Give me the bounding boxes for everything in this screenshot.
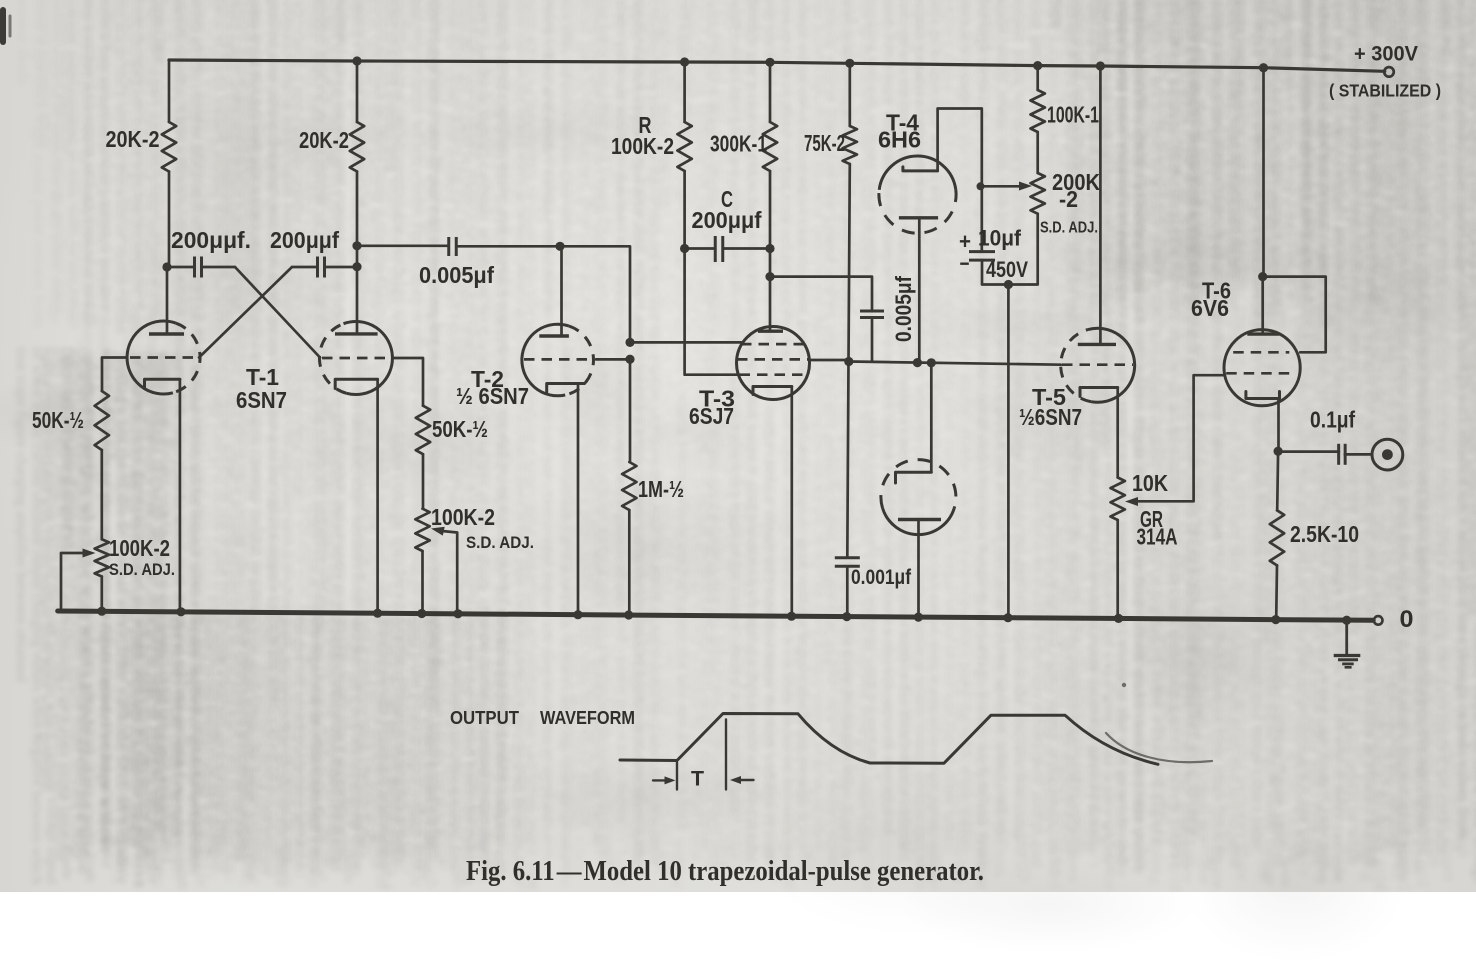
junction on B+ rail at 300K-1 (765, 58, 774, 67)
capacitor 200uuf (right) (292, 257, 357, 278)
wire: T-2 cathode to bus (577, 384, 580, 615)
junction dot T-4 upper plate lead (913, 358, 922, 367)
wiper of 10K to T-6 grid (1125, 375, 1224, 506)
T-1a cathode (145, 379, 180, 388)
junction dot T-1b cathode at bus (373, 609, 382, 618)
svg-text:450V: 450V (986, 257, 1028, 282)
svg-text:½6SN7: ½6SN7 (1019, 404, 1082, 430)
wire: cross-coupling diagonal from left cap to T-1b grid (235, 267, 320, 358)
T-5 cathode (1080, 388, 1118, 397)
T-1b cathode (335, 379, 377, 388)
caption Fig. 6.11 (466, 856, 984, 887)
resistor R 100K-2 (677, 62, 691, 247)
label T dimension (691, 768, 704, 791)
wire: T-5 plate lead (1099, 66, 1102, 344)
wire: T-2 grid line to T-3 g1 (630, 341, 741, 344)
wire: ground bus (58, 611, 1374, 620)
T-6 plate bar (1247, 332, 1279, 335)
svg-text:200μμf.: 200μμf. (171, 227, 251, 253)
wire: T-1a cathode to ground bus (179, 379, 182, 612)
label GR (1140, 506, 1163, 532)
label 6H6 (878, 127, 921, 153)
wire: T-3 plate lead (0, 0, 1, 1)
label 200uuf (C) (692, 207, 762, 233)
capacitor 0.1uf (1339, 444, 1346, 465)
label 0.001uf (851, 566, 912, 589)
T-3 plate bar (758, 330, 783, 333)
junction dot 1M at bus (624, 610, 633, 619)
label 100K-2 (R) (611, 133, 674, 159)
label R (639, 112, 652, 138)
label 75K-2 (804, 130, 845, 156)
label + of 10uf (959, 229, 971, 254)
capacitor 0.005uf (vertical) (860, 311, 884, 318)
label OUTPUT (450, 708, 519, 728)
label 20K-2 left (106, 126, 160, 152)
wire: T-4 lower plate to bus (917, 520, 920, 618)
svg-text:50K-½: 50K-½ (32, 407, 84, 433)
wire: T-1a grid lead (102, 358, 127, 392)
label 1M-1/2 (638, 476, 684, 502)
potentiometer 100K-2 S.D.ADJ (left) (95, 539, 109, 576)
svg-text:6H6: 6H6 (878, 127, 921, 153)
label T-5 (1032, 384, 1066, 410)
svg-text:( STABILIZED ): ( STABILIZED ) (1329, 81, 1441, 101)
label T-3 (699, 386, 735, 412)
dimension arrow right (730, 776, 754, 784)
dimension tick left of T (676, 763, 678, 790)
wire: 0.1uf to output jack (1345, 453, 1372, 456)
label T-4 (886, 110, 919, 136)
potentiometer 100K-2 S.D.ADJ (right) (415, 509, 429, 551)
junction dot 10uf line at bus (1003, 613, 1012, 622)
label 314A (1137, 524, 1178, 550)
svg-text:0.005μf: 0.005μf (419, 262, 494, 288)
junction dot 0.001uf at bus (842, 612, 851, 621)
svg-text:6SJ7: 6SJ7 (689, 403, 734, 429)
wire: left pot bottom to bus (100, 577, 103, 612)
label C (721, 186, 733, 212)
svg-text:75K-2: 75K-2 (804, 130, 845, 156)
svg-text:20K-2: 20K-2 (106, 126, 160, 152)
potentiometer 10K GR 314A (1111, 478, 1125, 521)
label 6V6 (1191, 295, 1229, 321)
label S.D. ADJ. right pot (466, 534, 534, 552)
wire: T-5 cathode to 10K (1116, 388, 1119, 478)
T-6 cathode (1246, 392, 1280, 399)
junction on B+ rail at 75K-2 (845, 59, 854, 68)
label 200uuf left (171, 227, 251, 253)
tube T-4 lower diode envelope (881, 460, 956, 535)
junction dot 0.005uf tap on T-3 plate line (765, 272, 774, 281)
junction dot plate T-1a / C coupling (162, 262, 171, 271)
label 2.5K-10 (1290, 521, 1359, 547)
T-4 lower cathode (896, 472, 932, 483)
junction on B+ rail at 100K-1 (1033, 61, 1042, 70)
output jack (1372, 439, 1403, 470)
T-3 grid 1 (dashed) (741, 343, 805, 346)
wire: T-3 cathode to bus (790, 387, 793, 617)
svg-text:0.001μf: 0.001μf (851, 566, 912, 589)
tube T-6 envelope (1224, 330, 1300, 406)
svg-text:200μμf: 200μμf (692, 207, 762, 233)
svg-text:100K-2: 100K-2 (109, 535, 170, 561)
T-5 grid (dashed) (1062, 363, 1133, 366)
tube T-1 section B envelope (319, 322, 392, 395)
resistor 75K-2 (843, 63, 857, 361)
T-3 grid 2 screen (dashed) (737, 358, 809, 361)
label 300K-1 (710, 131, 767, 157)
junction dot ground stem at bus (1342, 616, 1351, 625)
label 100K-2 right pot (431, 504, 495, 530)
junction dot T-3 cathode at bus (787, 612, 796, 621)
svg-text:100K-2: 100K-2 (431, 504, 495, 530)
terminal: 0 volt output (1374, 616, 1383, 625)
junction dot R / C cap (680, 244, 689, 253)
tube T-4 upper diode envelope (879, 156, 956, 233)
label 100K-1 (1047, 102, 1099, 128)
resistor 50K-1/2 (left) (95, 391, 109, 450)
label 10K (1132, 470, 1168, 496)
label - of 10uf (960, 251, 970, 276)
label 50K-1/2 right (432, 416, 488, 442)
arrow into 200K pot (1019, 182, 1032, 191)
wire: T-1b cathode to ground bus (376, 379, 379, 613)
svg-text:S.D. ADJ.: S.D. ADJ. (466, 534, 534, 552)
label 450V (986, 257, 1028, 282)
T-6 control grid (dashed) (1226, 372, 1289, 375)
T-2 grid (dashed) (524, 358, 594, 361)
svg-text:+ 300V: + 300V (1354, 43, 1418, 66)
label (STABILIZED) (1329, 81, 1441, 101)
label T-6 (1202, 278, 1231, 304)
junction dot 2.5K at bus (1271, 615, 1280, 624)
junction dot T-3 g1 tap (625, 338, 634, 347)
label -2 (1059, 186, 1078, 212)
wire: R line down to T-3 grid (685, 247, 738, 375)
T-1a grid (dashed) (130, 356, 196, 359)
wire: T-6 cathode to output node (1277, 399, 1280, 452)
svg-text:6SN7: 6SN7 (236, 387, 287, 413)
svg-text:0: 0 (1400, 606, 1414, 633)
T-2 cathode (547, 384, 585, 393)
label 50K-1/2 left (32, 407, 84, 433)
capacitor 10uf 450V (969, 252, 995, 261)
wire: tap to vertical 0.005uf (770, 277, 872, 312)
svg-text:-2: -2 (1059, 186, 1078, 212)
tube T-1 section A envelope (127, 321, 200, 394)
svg-text:50K-½: 50K-½ (432, 416, 488, 442)
wire: T-2 plate lead (560, 246, 563, 336)
T-3 grid 3 (dashed) (740, 373, 807, 376)
resistor 300K-1 (763, 62, 777, 331)
svg-text:0.1μf: 0.1μf (1310, 407, 1355, 433)
wiper of right pot (431, 527, 457, 614)
label 200K (1052, 169, 1100, 195)
svg-text:OUTPUT: OUTPUT (450, 708, 519, 728)
T-5 plate bar (1078, 343, 1116, 346)
T-6 screen grid (dashed) (1233, 351, 1289, 354)
svg-text:Fig. 6.11 — Model 10 trapezoid: Fig. 6.11 — Model 10 trapezoidal-pulse g… (466, 856, 984, 887)
wire: T-1a plate lead (166, 267, 169, 334)
junction dot below 10uf (1004, 280, 1013, 289)
wire: T-4 upper cathode loop to 10uf/200K wiper (938, 109, 982, 252)
junction dot T-2 cathode at bus (573, 610, 582, 619)
wire: 50K to pot (right) (422, 454, 425, 509)
label 0 terminal (1400, 606, 1414, 633)
resistor 20K-2 (left) (162, 60, 176, 267)
svg-text:300K-1: 300K-1 (710, 131, 767, 157)
T-3 cathode (753, 387, 792, 395)
label T-1 (246, 364, 279, 390)
label 200uuf right (270, 227, 339, 253)
label S.D.ADJ. 200K (1040, 220, 1098, 237)
T-1b grid (dashed) (322, 357, 392, 360)
dimension tick right of T (725, 720, 727, 790)
wire: T-6 plate branch (1262, 68, 1265, 277)
ground symbol (1334, 620, 1361, 667)
wire: 10uf bottom rail (982, 214, 1038, 285)
wire: T-4 lower cathode to junction (930, 363, 933, 472)
wire: 0.005uf to T-2 grid line (457, 246, 631, 342)
wire: B+ supply rail (169, 60, 1385, 71)
wire: wiper line (982, 185, 1026, 188)
junction dot output node (1274, 447, 1283, 456)
svg-text:10μf: 10μf (978, 226, 1022, 251)
output waveform trace (620, 714, 1158, 765)
wire: T-3 screen to 75K line (809, 359, 849, 362)
resistor 50K-1/2 (right) (416, 406, 430, 455)
wire: T-6 screen loop (1263, 277, 1326, 353)
svg-text:200μμf: 200μμf (270, 227, 339, 253)
svg-text:100K-2: 100K-2 (611, 133, 674, 159)
junction dot 75K / screen / long wire (844, 357, 853, 366)
T-4 lower plate bar (898, 518, 941, 521)
wire: T-4 upper plate to junction (918, 218, 921, 363)
junction dot left pot at bus (97, 607, 106, 616)
wire: T-2 grid lead (596, 358, 630, 361)
wire: T-1b grid lead (393, 358, 424, 406)
wire: T-6 plate lead (1261, 277, 1264, 335)
resistor 100K-1 (1031, 66, 1045, 173)
wire: 50K to pot (left) (100, 450, 103, 539)
wire: T-1b plate to 0.005uf (357, 244, 448, 247)
T-4 upper plate bar (899, 216, 938, 219)
resistor 20K-2 (right) (350, 61, 364, 334)
label 0.005uf (419, 262, 494, 288)
junction dot right pot wiper at bus (453, 609, 462, 618)
svg-text:100K-1: 100K-1 (1047, 102, 1099, 128)
junction on B+ rail at 20K-2 #2 (352, 56, 361, 65)
capacitor 0.001uf (835, 558, 860, 567)
junction dot T-2 grid (625, 355, 634, 364)
label 100K-2 left pot (109, 535, 170, 561)
junction dot 200K wiper tee (977, 182, 985, 190)
wire: cross-coupling diagonal from right cap to T-1a grid (199, 267, 292, 358)
tube T-3 envelope (737, 327, 810, 400)
junction dot C / 300K / T-3 plate (765, 244, 774, 253)
wire: 75K line to 0.001uf (847, 362, 848, 558)
svg-text:314A: 314A (1137, 524, 1178, 550)
svg-text:0.005μf: 0.005μf (891, 275, 916, 342)
wire: 10uf junction to bus (1007, 285, 1010, 618)
junction dot T-4 lower cathode lead (927, 358, 936, 367)
svg-text:T: T (691, 768, 704, 791)
svg-text:2.5K-10: 2.5K-10 (1290, 521, 1359, 547)
T-1b plate bar (335, 332, 378, 335)
svg-text:6V6: 6V6 (1191, 295, 1229, 321)
resistor 1M-1/2 (622, 462, 636, 510)
label 0.005uf vertical (891, 275, 916, 342)
svg-text:½ 6SN7: ½ 6SN7 (456, 383, 529, 409)
tube T-5 envelope (1061, 328, 1135, 402)
svg-text:S.D. ADJ.: S.D. ADJ. (1040, 220, 1098, 237)
label 1/2 6SN7 (456, 383, 529, 409)
svg-text:20K-2: 20K-2 (299, 127, 349, 153)
svg-text:S.D. ADJ.: S.D. ADJ. (109, 561, 175, 579)
wire: 0.001uf to bus (846, 566, 849, 616)
tube T-2 envelope (522, 324, 594, 396)
svg-text:WAVEFORM: WAVEFORM (540, 708, 635, 728)
wire: output node to 0.1uf (1278, 450, 1339, 453)
scan artifact arc (1106, 733, 1212, 762)
dimension arrow left (653, 776, 676, 784)
label 10uf (978, 226, 1022, 251)
svg-text:10K: 10K (1132, 470, 1168, 496)
scan mark left edge (3, 10, 10, 42)
svg-text:−: − (960, 251, 970, 276)
junction on B+ rail at T-6 plate (1259, 63, 1268, 72)
junction dot T-1b plate / 0.005uf wire (352, 241, 361, 250)
junction on B+ rail at R 100K-2 (680, 57, 689, 66)
label 1/2 6SN7 (T-5) (1019, 404, 1082, 430)
label T-2 (471, 366, 504, 392)
wire: 1M to bus (628, 510, 631, 615)
potentiometer 200K-2 (1031, 173, 1045, 214)
label 0.1uf (1310, 407, 1355, 433)
label WAVEFORM (540, 708, 635, 728)
junction dot T-4 lower plate at bus (914, 613, 923, 622)
terminal: +300V supply (1384, 67, 1394, 77)
junction dot T-1a cathode at bus (176, 607, 185, 616)
wire: vertical 0.005uf to diode junction (871, 318, 874, 362)
wire: right pot bottom to bus (421, 551, 424, 614)
wiper of left pot (61, 549, 96, 612)
label 20K-2 right (299, 127, 349, 153)
junction dot T-6 screen tee (1258, 272, 1267, 281)
T-1a plate bar (149, 332, 184, 335)
capacitor 0.005uf (horizontal) (449, 237, 457, 256)
capacitor C 200uuf (685, 236, 770, 262)
capacitor 200uuf (left) (167, 257, 235, 278)
scan speck (1122, 683, 1126, 687)
T-4 upper cathode (903, 167, 938, 171)
T-2 plate bar (539, 334, 569, 337)
wire: diode junction line to T-5 grid (849, 362, 1061, 365)
junction dot T-1b plate / right 200uuf cap (352, 262, 361, 271)
label 6SN7 (236, 387, 287, 413)
wire: grid line to 1M (629, 359, 632, 462)
label 6SJ7 (689, 403, 734, 429)
junction on B+ rail at T-5 plate (1096, 61, 1105, 70)
label S.D.ADJ. left pot (109, 561, 175, 579)
label +300V (1354, 43, 1418, 66)
resistor 2.5K-10 (1270, 452, 1284, 620)
junction dot right pot at bus (417, 609, 426, 618)
svg-text:1M-½: 1M-½ (638, 476, 684, 502)
wire: 10K to bus (1116, 520, 1119, 618)
junction dot T-2 plate (555, 242, 564, 251)
junction dot 10K at bus (1114, 614, 1123, 623)
